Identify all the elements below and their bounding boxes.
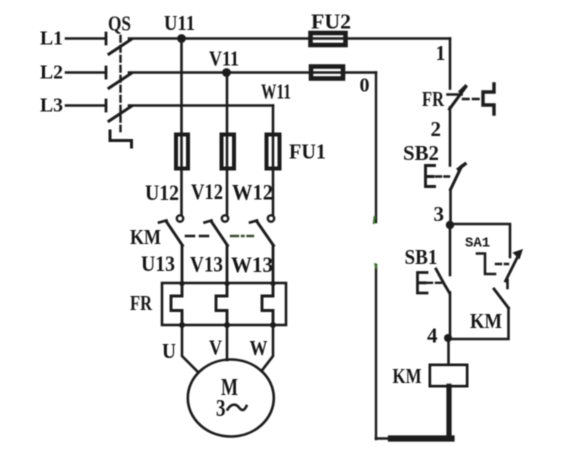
contactor KM main contact V blade tick [205,221,212,223]
svg-text:3: 3 [216,396,226,422]
wire control line 1 vertical [449,39,452,89]
SB2 pushbutton actuator E [426,166,435,187]
SA1 contact blade [506,254,520,281]
QS pole 1 blade [109,40,131,55]
svg-text:SB1: SB1 [405,245,438,269]
wire motor lead V [226,325,229,360]
wire SA1 to KM aux [506,280,509,288]
contactor KM main contact W upper seat circle [268,215,274,221]
fuse FU2 pole 2 [311,67,343,79]
svg-text:V13: V13 [190,252,223,277]
QS pole 1 fixed contact tick [105,33,108,44]
svg-text:FR: FR [422,87,445,111]
svg-text:L2: L2 [40,62,63,84]
wire 0 line upper segment [375,73,377,223]
wire coil bottom thick [446,386,451,439]
wire bottom return thick [391,435,452,441]
FR contact link dashes [463,98,481,100]
green scan artifact at 0-line break [373,217,376,223]
SB1 actuator link dashes [427,282,443,284]
svg-text:2: 2 [431,117,442,141]
green scan artifact at lower break [375,264,377,268]
svg-text:W11: W11 [261,80,291,104]
QS pole 3 blade [109,107,131,122]
QS pole 3 fixed contact tick [105,100,108,111]
FR NC contact blade [450,88,466,109]
SB1 NO blade [436,269,450,293]
fuse FU1 pole U [176,135,188,169]
junction dots on FR box bottom edge [179,322,185,328]
fuse FU1 pole V [222,135,235,169]
svg-text:L1: L1 [40,28,63,50]
svg-text:0: 0 [360,75,370,97]
svg-text:U12: U12 [145,180,179,205]
contactor KM main contact W blade tick [250,221,257,223]
SA1 blade arrowhead [513,249,524,260]
node V11 junction dot [222,68,231,77]
svg-text:U13: U13 [141,251,175,276]
wire V phase down from V11 [226,73,229,216]
QS pole 2 fixed contact tick [105,67,108,78]
KM auxiliary contact blade [494,289,509,308]
wire W phase down from W11 corner [272,106,275,216]
svg-text:FU1: FU1 [289,140,326,164]
contactor KM main contact U blade tick [159,221,167,223]
svg-text:V11: V11 [209,47,239,71]
wire node 4 to coil [447,338,450,365]
node 4 junction dot [444,334,452,342]
wire node3 to SB1 [449,227,452,275]
junction dots on FR box top edge [179,281,184,286]
fuse FU2 pole 1 [311,33,346,45]
svg-text:V12: V12 [191,179,223,204]
node U11 junction dot [177,34,186,43]
FR heater element V [216,283,227,325]
SB2 NC blade [451,167,462,190]
svg-text:4: 4 [427,324,438,348]
svg-text:FU2: FU2 [311,10,351,34]
wire segment 2 [449,108,452,166]
FR trip element bracket [483,84,494,114]
SB2 blade tip flag [459,164,466,169]
wire segment into node 3 [449,190,452,223]
wire L1 to FU2 and right corner [129,37,450,40]
contactor KM main contact W blade [257,221,274,246]
QS handle [110,131,132,147]
svg-text:U: U [162,339,176,363]
svg-text:KM: KM [393,364,422,388]
wire L3 to W11 corner [129,104,273,107]
wire 0 line lower segment [375,265,377,439]
wire bottom return thin [376,437,392,440]
SB1 pushbutton actuator E [418,273,428,294]
wire U phase down from U11 [180,39,183,216]
wire SB1 to node 4 [449,293,452,337]
KM linkage dash-dot V-W (greenish scan tint) [231,235,253,237]
contactor KM main contact V blade [211,221,228,246]
wire L2 to FU2b and 0-corner [129,71,376,74]
wire KM aux down and to node 4 [451,308,509,339]
motor M circle [188,360,274,437]
svg-text:L3: L3 [40,95,63,117]
wire branch to SA1 [450,224,510,257]
contactor KM main contact U blade [166,221,183,246]
wire motor lead W [262,325,274,371]
svg-text:QS: QS [108,12,131,36]
contactor KM main contact V upper seat circle [222,215,228,221]
wire U13 segment [181,246,184,284]
svg-text:3: 3 [434,202,445,226]
svg-text:V: V [209,336,222,360]
tilde of 3~ [228,405,247,410]
SA1 operator bracket [477,254,495,275]
SB2 actuator link dashes [436,175,449,177]
FR NC contact seat bar [448,93,462,96]
fuse FU1 pole W [267,135,280,169]
contactor KM main contact U upper seat circle [177,215,183,221]
svg-text:SA1: SA1 [465,236,490,252]
FR NC contact blade flag [461,87,466,92]
svg-text:U11: U11 [164,11,195,35]
wire motor lead U [182,325,198,372]
QS pole 2 blade [109,74,131,89]
svg-text:KM: KM [130,225,161,249]
svg-text:SB2: SB2 [403,141,439,165]
svg-text:W: W [250,336,268,360]
svg-text:FR: FR [130,291,153,315]
FR heater element U [171,283,182,325]
wire L3 feed [66,104,104,107]
QS linkage dashed line [119,36,121,131]
svg-text:W13: W13 [231,252,273,277]
wire V13 segment [226,246,229,284]
KM linkage dash U-V [186,235,208,238]
node 3 junction dot [446,221,454,229]
wire L1 feed [66,37,104,40]
SA1 link dashes [496,263,508,265]
svg-text:W12: W12 [232,180,273,205]
wire W13 segment [272,246,275,284]
FR heater element W [262,283,273,325]
contactor coil KM [430,365,467,386]
svg-text:1: 1 [436,41,446,65]
svg-text:KM: KM [470,309,502,333]
thermal relay FR box [162,283,286,325]
wire L2 feed [66,71,104,74]
